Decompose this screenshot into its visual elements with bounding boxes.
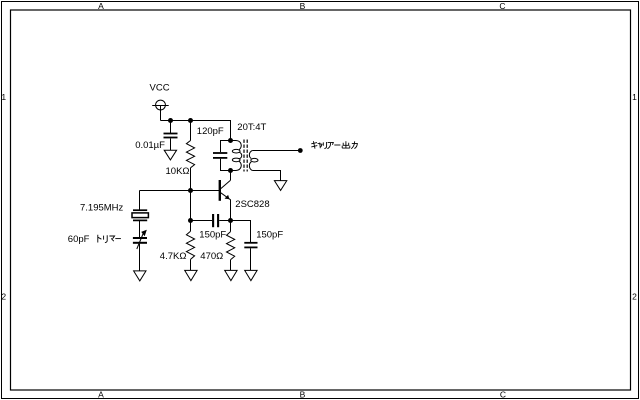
svg-text:60pF: 60pF [68,234,90,245]
wire secondary to ground [252,171,280,181]
node junction at 190,120 [188,118,193,123]
wire VCC rail y=120 [161,121,231,141]
svg-text:150pF: 150pF [199,230,226,241]
coupling capacitor 150pF [191,214,231,227]
transformer T1 primary winding [231,141,242,171]
svg-text:VCC: VCC [150,83,170,94]
svg-text:B: B [300,390,306,400]
wire base node down [190,191,192,221]
ground under 4.7K [185,270,197,280]
svg-text:C: C [499,1,505,11]
label carrier output (katakana kya-ri-a- shutsuryoku) [311,141,357,149]
svg-text:2: 2 [1,292,6,302]
svg-text:120pF: 120pF [197,126,224,137]
svg-text:1: 1 [632,92,637,102]
svg-text:7.195MHz: 7.195MHz [80,203,124,214]
crystal X1 7.195MHz [132,191,148,238]
ground under 0.01uF [164,150,176,160]
svg-text:1: 1 [1,92,6,102]
node junction at 230,220 [228,218,233,223]
capacitor C 0.01uF [164,121,178,151]
ground under trimmer [134,271,146,281]
svg-text:A: A [98,390,104,400]
svg-text:10KΩ: 10KΩ [166,166,190,177]
ground under 470 [225,270,237,280]
svg-text:150pF: 150pF [256,230,283,241]
svg-text:C: C [500,390,506,400]
label trimmer (katakana to-ri-ma-) [98,235,121,243]
wire trimmer to ground [139,244,141,271]
trimmer capacitor 60pF [133,232,147,250]
svg-text:0.01µF: 0.01µF [135,140,165,151]
svg-text:470Ω: 470Ω [200,251,223,262]
wire emitter node to right cap [231,221,251,243]
capacitor 150pF right [244,243,257,271]
node base junction [188,188,193,193]
capacitor 120pF (tank) [213,141,231,171]
resistor R 470 [227,221,235,271]
node transformer top junction [228,138,233,143]
node output terminal [298,148,303,153]
svg-text:B: B [300,1,306,11]
node transformer bottom junction [228,168,233,173]
ground under secondary [274,181,286,191]
svg-text:2SC828: 2SC828 [235,199,269,210]
ground under right 150pF [245,270,257,280]
transformer T1 core [244,140,247,172]
svg-text:4.7KΩ: 4.7KΩ [160,251,187,262]
svg-text:A: A [98,1,104,11]
svg-text:20T:4T: 20T:4T [237,122,266,133]
resistor R 10K [186,121,194,191]
transistor Q1 2SC828 [220,171,231,221]
wire secondary output [252,150,300,152]
node junction at 170,120 [168,118,173,123]
resistor R 4.7K [186,221,194,271]
transformer T1 secondary winding [249,151,258,171]
svg-text:2: 2 [632,292,637,302]
power symbol VCC [152,100,169,120]
wire base rail y=190.5 [140,190,220,192]
node junction at 190,220 [188,218,193,223]
